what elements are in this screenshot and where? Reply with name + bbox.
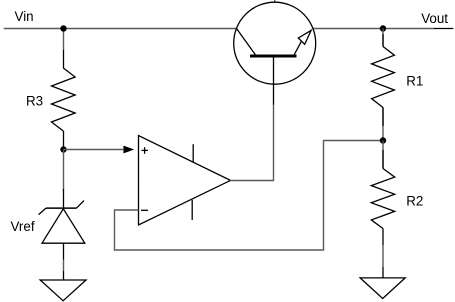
- wire: junction down to R2: [382, 141, 384, 169]
- node: R3 / Vref / op-amp input junction dot: [60, 146, 66, 152]
- svg-text:Vin: Vin: [15, 9, 34, 24]
- svg-text:Vout: Vout: [421, 11, 448, 26]
- wire: transistor right to Vout rail (gray part): [313, 28, 434, 30]
- wire: from Vin node down to R3: [63, 29, 65, 51]
- resistor R1: [372, 34, 395, 126]
- resistor R2: [371, 150, 394, 245]
- node: Vin / R3 junction dot: [60, 25, 66, 31]
- zener diode Vref: [39, 189, 85, 260]
- wire: op-amp inverting input feedback (to R1/R2 junction): [115, 141, 384, 251]
- op-amp U1: [139, 136, 231, 226]
- wire: Vout rail end segment (black): [434, 28, 453, 30]
- arrowhead into op-amp + input: [123, 146, 134, 154]
- ground (left, under Vref): [40, 271, 86, 301]
- node: Vout / R1 junction dot: [380, 25, 386, 31]
- node: R1 / R2 / feedback junction dot: [380, 137, 386, 143]
- wire: op-amp output to transistor base: [230, 104, 274, 181]
- wire: node down to zener: [63, 150, 65, 191]
- svg-text:R1: R1: [406, 73, 423, 88]
- svg-text:Vref: Vref: [11, 219, 35, 234]
- wire: Vout node down through R1 to feedback node: [382, 29, 384, 47]
- svg-text:R2: R2: [406, 193, 423, 208]
- wire: Vin rail from left edge to transistor circle: [4, 28, 237, 30]
- wire: R2 to right ground: [382, 245, 384, 267]
- ground (right, under R2): [360, 267, 405, 299]
- transistor Q1: [234, 0, 316, 105]
- wire: zener to left ground: [63, 260, 65, 272]
- wire: node to op-amp non-inverting input: [64, 149, 124, 151]
- svg-text:R3: R3: [26, 93, 43, 108]
- resistor R3: [52, 50, 76, 147]
